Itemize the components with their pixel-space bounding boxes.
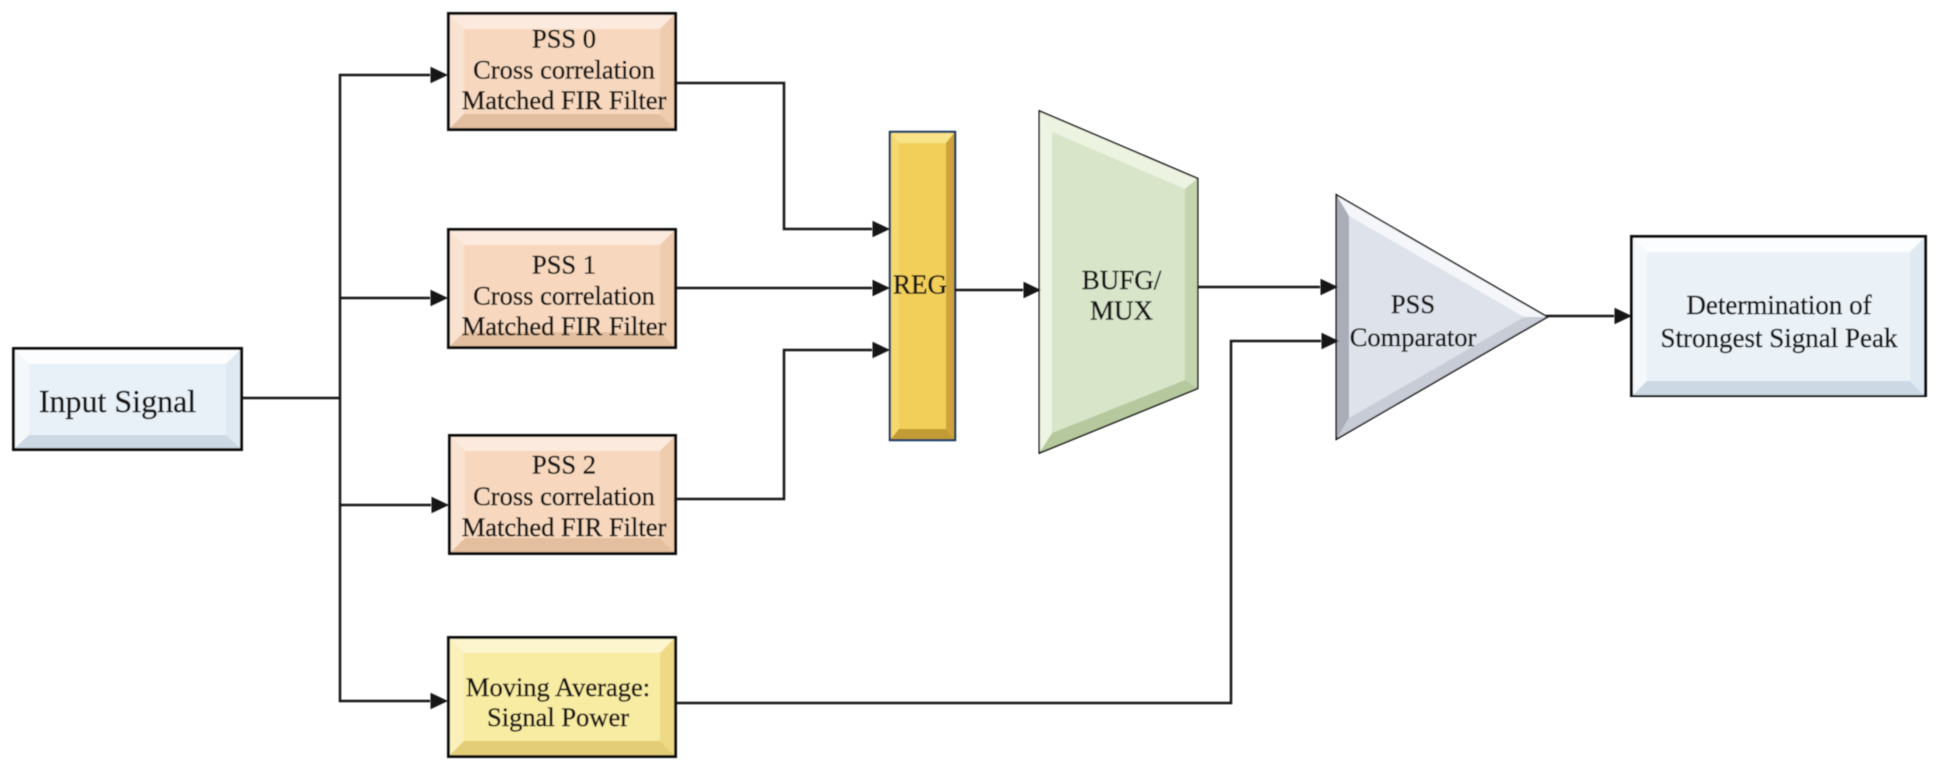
wire PSS 2 output to REG: [676, 350, 872, 499]
svg-text:PSS 2: PSS 2: [532, 450, 596, 480]
svg-text:Determination of: Determination of: [1686, 290, 1871, 320]
svg-text:PSS 0: PSS 0: [532, 24, 596, 54]
svg-text:Signal Power: Signal Power: [487, 702, 629, 732]
svg-text:MUX: MUX: [1090, 296, 1154, 326]
svg-text:Cross correlation: Cross correlation: [473, 55, 655, 85]
block PSS 1 Cross correlation Matched FIR Filter: [449, 230, 676, 348]
wire branch to PSS 0: [339, 74, 430, 77]
wire branch to PSS 1: [339, 297, 430, 300]
svg-text:Matched FIR Filter: Matched FIR Filter: [462, 85, 667, 115]
svg-text:Input Signal: Input Signal: [39, 383, 196, 419]
wire BUFG/MUX output to comparator: [1197, 286, 1320, 289]
block REG: [890, 132, 955, 440]
block PSS Comparator triangle: [1337, 196, 1546, 438]
block Determination of Strongest Signal Peak: [1632, 237, 1926, 396]
svg-text:BUFG/: BUFG/: [1082, 265, 1162, 295]
svg-text:Cross correlation: Cross correlation: [473, 481, 655, 511]
block BUFG/MUX trapezoid: [1040, 112, 1197, 452]
svg-text:Matched FIR Filter: Matched FIR Filter: [462, 311, 667, 341]
svg-text:Comparator: Comparator: [1350, 322, 1477, 352]
wire branch to Moving Average: [339, 700, 430, 703]
svg-text:PSS: PSS: [1391, 289, 1435, 319]
svg-text:PSS 1: PSS 1: [532, 250, 596, 280]
wire branch to PSS 2: [339, 504, 431, 507]
svg-text:REG: REG: [893, 270, 947, 300]
svg-text:Strongest Signal Peak: Strongest Signal Peak: [1661, 323, 1898, 353]
svg-text:Cross correlation: Cross correlation: [473, 281, 655, 311]
wire REG output to BUFG/MUX: [955, 289, 1023, 292]
wire PSS 0 output to REG: [676, 83, 872, 229]
block PSS 0 Cross correlation Matched FIR Filter: [449, 14, 676, 130]
block Input Signal: [14, 349, 242, 450]
svg-text:Matched FIR Filter: Matched FIR Filter: [462, 512, 667, 542]
wire PSS 1 output to REG: [676, 287, 872, 290]
wire Moving Average output to comparator: [676, 341, 1321, 703]
wire input signal to trunk: [242, 397, 341, 400]
svg-text:Moving Average:: Moving Average:: [466, 672, 650, 702]
wire trunk vertical: [339, 74, 342, 702]
block PSS 2 Cross correlation Matched FIR Filter: [450, 436, 676, 554]
wire comparator output to determination box: [1546, 315, 1614, 318]
block Moving Average: Signal Power: [449, 638, 676, 757]
